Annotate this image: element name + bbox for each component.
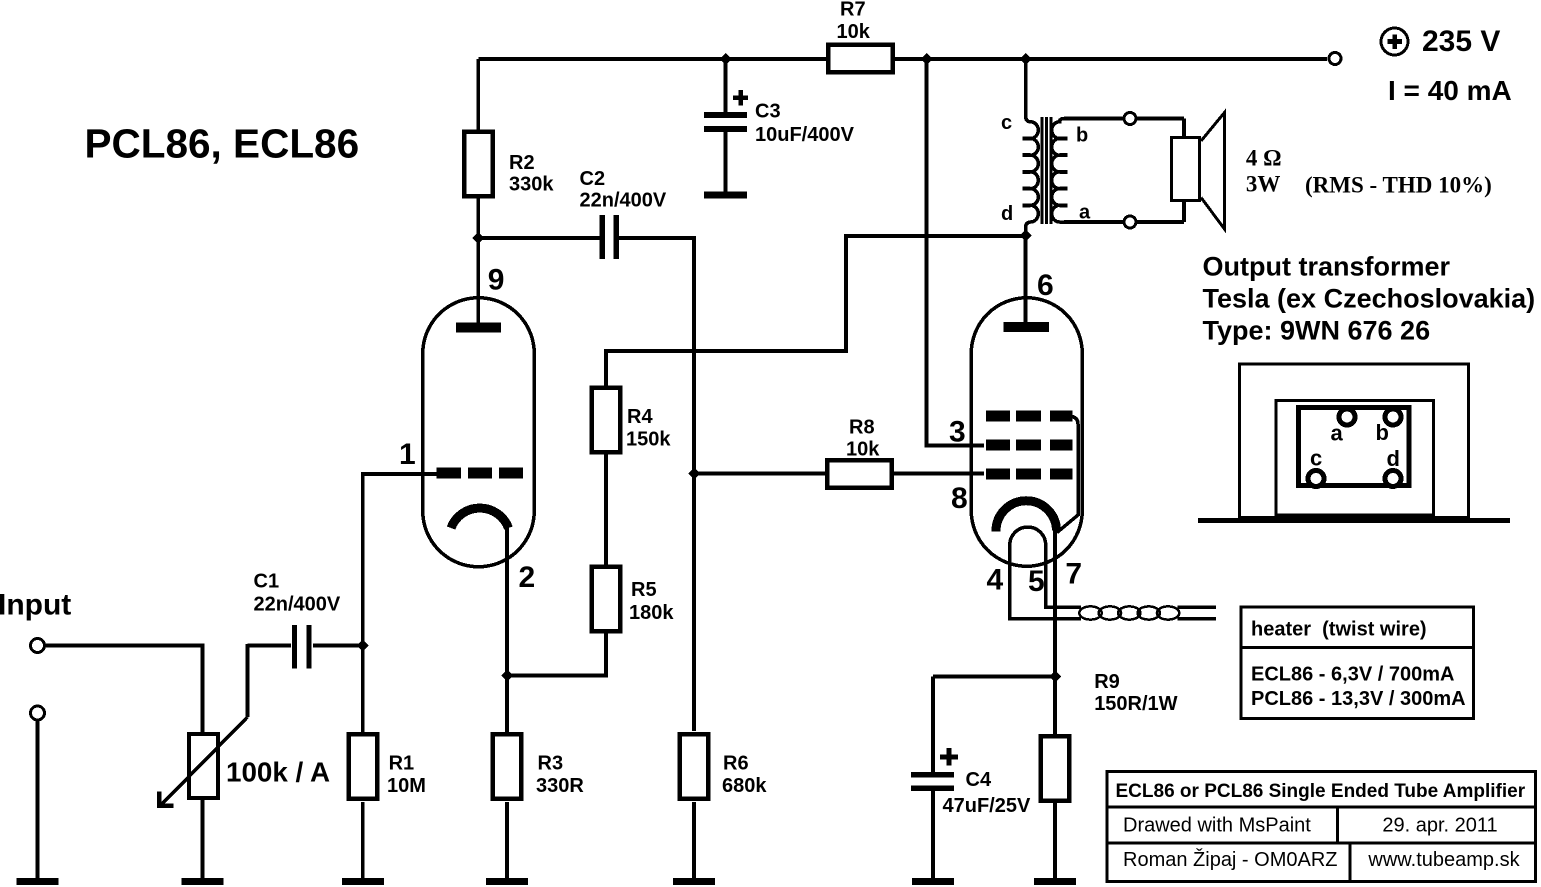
svg-text:R5: R5 <box>631 579 657 601</box>
svg-text:10k: 10k <box>846 439 880 461</box>
svg-text:C1: C1 <box>254 571 280 593</box>
svg-text:R8: R8 <box>849 417 875 439</box>
svg-text:10M: 10M <box>387 775 426 797</box>
svg-text:I = 40 mA: I = 40 mA <box>1388 75 1512 106</box>
svg-text:Tesla (ex Czechoslovakia): Tesla (ex Czechoslovakia) <box>1203 284 1536 314</box>
svg-text:6: 6 <box>1037 269 1054 302</box>
svg-text:PCL86 - 13,3V / 300mA: PCL86 - 13,3V / 300mA <box>1251 688 1466 710</box>
svg-text:C3: C3 <box>755 101 781 123</box>
svg-text:PCL86, ECL86: PCL86, ECL86 <box>85 121 360 167</box>
svg-text:c: c <box>1310 446 1322 471</box>
svg-text:R4: R4 <box>627 406 653 428</box>
svg-text:C4: C4 <box>966 769 992 791</box>
svg-text:R2: R2 <box>509 152 535 174</box>
svg-text:235 V: 235 V <box>1422 25 1500 58</box>
svg-text:heater (twist wire): heater (twist wire) <box>1251 618 1427 640</box>
svg-text:C2: C2 <box>580 168 606 190</box>
svg-text:150k: 150k <box>626 429 671 451</box>
svg-text:4: 4 <box>987 564 1004 597</box>
svg-text:d: d <box>1387 446 1400 471</box>
svg-text:R7: R7 <box>840 0 866 21</box>
svg-text:R3: R3 <box>538 753 564 775</box>
svg-text:Output transformer: Output transformer <box>1203 252 1451 282</box>
svg-text:29. apr. 2011: 29. apr. 2011 <box>1382 815 1497 837</box>
svg-text:R9: R9 <box>1094 671 1120 693</box>
svg-text:150R/1W: 150R/1W <box>1094 693 1177 715</box>
svg-text:Drawed with MsPaint: Drawed with MsPaint <box>1123 815 1311 837</box>
svg-text:9: 9 <box>488 264 505 297</box>
svg-text:47uF/25V: 47uF/25V <box>943 795 1031 817</box>
svg-text:a: a <box>1331 421 1344 446</box>
svg-text:b: b <box>1076 125 1088 147</box>
svg-text:c: c <box>1001 112 1012 134</box>
svg-text:330k: 330k <box>509 174 554 196</box>
svg-text:ECL86 or PCL86 Single Ended Tu: ECL86 or PCL86 Single Ended Tube Amplifi… <box>1116 781 1526 802</box>
svg-text:3W: 3W <box>1246 172 1281 197</box>
svg-text:7: 7 <box>1065 558 1082 591</box>
svg-text:22n/400V: 22n/400V <box>580 190 667 212</box>
svg-text:3: 3 <box>949 416 966 449</box>
svg-text:(RMS - THD 10%): (RMS - THD 10%) <box>1305 172 1492 197</box>
svg-text:180k: 180k <box>629 602 674 624</box>
svg-text:R1: R1 <box>389 753 415 775</box>
svg-text:680k: 680k <box>722 775 767 797</box>
svg-text:5: 5 <box>1028 565 1045 598</box>
svg-text:R6: R6 <box>723 753 749 775</box>
svg-text:Type: 9WN 676 26: Type: 9WN 676 26 <box>1203 316 1431 346</box>
svg-text:d: d <box>1001 203 1013 225</box>
svg-text:www.tubeamp.sk: www.tubeamp.sk <box>1367 849 1520 871</box>
svg-text:100k / A: 100k / A <box>226 757 330 788</box>
svg-text:a: a <box>1079 202 1091 224</box>
svg-text:10uF/400V: 10uF/400V <box>755 124 855 146</box>
svg-text:10k: 10k <box>837 21 871 43</box>
svg-text:4 Ω: 4 Ω <box>1246 145 1282 170</box>
svg-text:22n/400V: 22n/400V <box>254 594 341 616</box>
svg-text:330R: 330R <box>536 775 584 797</box>
svg-text:2: 2 <box>519 561 536 594</box>
svg-text:1: 1 <box>399 438 416 471</box>
svg-text:ECL86 - 6,3V / 700mA: ECL86 - 6,3V / 700mA <box>1251 664 1454 686</box>
svg-text:8: 8 <box>951 482 968 515</box>
svg-text:Input: Input <box>0 588 71 621</box>
svg-text:b: b <box>1376 420 1389 445</box>
svg-text:Roman Žipaj - OM0ARZ: Roman Žipaj - OM0ARZ <box>1123 848 1338 871</box>
